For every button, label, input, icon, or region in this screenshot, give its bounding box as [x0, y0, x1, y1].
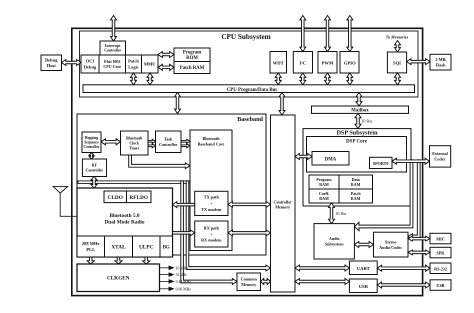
wire arrow top to GPIO [347, 16, 353, 52]
svg-text:Controller: Controller [159, 142, 178, 147]
svg-text:Audio Codec: Audio Codec [379, 245, 402, 250]
wire SPORT0 to External Codec [392, 158, 430, 164]
block External Codec [430, 146, 451, 167]
svg-text:IO Bus: IO Bus [336, 212, 347, 216]
svg-text:DMA: DMA [325, 157, 337, 162]
wire WDT to CPU bus [275, 73, 281, 85]
wire Controller Memory to USB [295, 279, 349, 285]
svg-text:ULPC: ULPC [139, 244, 154, 250]
wire Patch Logic to CPU bus [131, 73, 137, 85]
svg-text:Patch RAM: Patch RAM [180, 66, 205, 71]
wire vertical feeder to UART row [186, 181, 270, 271]
svg-text:CPU Program/Data Bus: CPU Program/Data Bus [227, 88, 278, 93]
block SPK [430, 247, 451, 257]
svg-text:Hopping: Hopping [85, 136, 99, 140]
block Program RAM [309, 175, 339, 189]
svg-text:RX modem: RX modem [201, 238, 222, 243]
wire RAM grid to Audio Subsystem IO Bus [329, 203, 335, 224]
svg-text:RX path: RX path [204, 225, 220, 230]
wire Debug Host to OCI Debug [62, 60, 82, 66]
svg-text:CLDO: CLDO [108, 195, 123, 201]
wire Mailbox to DSP Subsystem IO Bus [355, 113, 361, 128]
wire Radio to RX path [173, 230, 195, 236]
wire Clock Timer to Task Controller lower [148, 144, 156, 148]
svg-text:Controller: Controller [104, 49, 121, 53]
svg-text:0.96 MHz: 0.96 MHz [176, 287, 192, 291]
svg-text:RAM: RAM [351, 196, 361, 201]
svg-text:Controller: Controller [274, 199, 293, 204]
svg-text:Program: Program [183, 51, 201, 56]
svg-text:MIC: MIC [436, 237, 445, 242]
wire MMU to CPU bus [147, 73, 153, 85]
svg-text:CPU Core: CPU Core [103, 64, 121, 69]
svg-text:Bluetooth: Bluetooth [126, 136, 143, 140]
wire CPU bus to Controller Memory [279, 93, 285, 116]
wire Clock Timer L-arrow to Baseband Core [129, 155, 190, 169]
block ULPC [133, 236, 161, 257]
svg-text:UART: UART [357, 266, 370, 271]
svg-text:WDT: WDT [273, 61, 284, 66]
block PWM [318, 52, 337, 74]
wire CPU bus to Baseband [175, 93, 181, 114]
svg-text:Memory: Memory [241, 282, 256, 287]
wire TX path to Controller Memory [228, 201, 271, 207]
svg-text:USB: USB [436, 283, 444, 288]
svg-text:RF: RF [92, 164, 98, 168]
block Audio Subsystem [314, 224, 354, 259]
svg-text:MMU: MMU [144, 62, 156, 67]
bus CPU Program-Data Bus [83, 85, 415, 93]
wire arrow top to Interrupt Controller [111, 16, 117, 42]
clock output 16 MHz [160, 267, 170, 269]
svg-text:Flash: Flash [435, 62, 446, 67]
wire Hopping to Clock Timer [101, 139, 121, 145]
block Common Memory [237, 273, 261, 291]
wire SQI to memories [395, 41, 401, 53]
wire SQI to CPU bus [395, 73, 401, 85]
block USB internal [349, 279, 377, 293]
block WDT [270, 52, 287, 74]
clock output 32 kHz [160, 274, 170, 276]
svg-text:SPK: SPK [436, 251, 445, 256]
wire Controller Memory to UART [295, 265, 349, 271]
block MIC [430, 233, 451, 244]
svg-text:TX modem: TX modem [201, 207, 222, 212]
block TX path TX modem [195, 191, 228, 215]
svg-text:2 MB: 2 MB [435, 57, 445, 62]
svg-text:TX path: TX path [204, 195, 220, 200]
wire Task Controller to Baseband Core upper [181, 139, 190, 143]
clock output 0.96 MHz [160, 288, 170, 290]
block DSP Core [307, 137, 407, 173]
svg-text:Clock: Clock [129, 141, 140, 145]
svg-text:Debug: Debug [84, 64, 97, 69]
block DSP Subsystem [303, 129, 411, 206]
wire RF Controller to Radio [91, 177, 97, 189]
svg-text:Stereo: Stereo [385, 239, 396, 244]
block RS-232 [430, 263, 451, 274]
svg-text:CPU Subsystem: CPU Subsystem [221, 33, 270, 41]
svg-text:IO Bus: IO Bus [362, 119, 373, 123]
block Stereo Audio Codec [374, 232, 409, 257]
block CLDO [104, 191, 127, 203]
svg-text:288 MHz: 288 MHz [82, 241, 100, 246]
wire CPU bus to Mailbox [356, 93, 362, 107]
wire Stereo Codec to MIC [408, 236, 430, 241]
svg-text:SPORT0: SPORT0 [373, 161, 389, 166]
svg-text:I²C: I²C [300, 61, 306, 66]
block Patch RAM of DSP [339, 189, 373, 203]
svg-text:ROM: ROM [186, 56, 198, 61]
wire USB to USB connector [377, 282, 430, 288]
block RF Controller [82, 159, 106, 177]
svg-text:XTAL: XTAL [111, 244, 126, 250]
chip boundary [72, 28, 423, 295]
svg-text:BG: BG [163, 245, 170, 250]
wire Controller Memory to DMA [295, 154, 312, 160]
svg-text:Logic: Logic [128, 64, 139, 69]
wire Stereo Codec to SPK [408, 250, 430, 255]
block SQI [387, 52, 406, 73]
block Program ROM [174, 48, 210, 62]
wire Hopping to RF Controller [89, 153, 94, 160]
svg-text:Codec: Codec [434, 157, 445, 162]
block Coeff RAM [309, 189, 339, 203]
block SPORT0 [370, 157, 393, 168]
block BG [160, 236, 173, 257]
block Interrupt Controller [100, 41, 126, 55]
wire UART to RS-232 [377, 265, 430, 271]
block Mailbox [312, 106, 409, 113]
block Bluetooth Clock Timer [121, 131, 149, 155]
svg-text:External: External [432, 151, 448, 156]
block Task Controller [156, 131, 182, 153]
block Patch Logic [126, 55, 142, 73]
wire Common Memory to Controller Memory [261, 279, 271, 285]
svg-text:RAM: RAM [319, 182, 329, 187]
clock output 0.48 MHz [160, 280, 170, 282]
svg-text:Controller: Controller [86, 169, 104, 173]
svg-text:Baseband: Baseband [237, 116, 263, 123]
wire PWM to CPU bus [325, 73, 331, 85]
block RX path RX modem [195, 221, 228, 247]
svg-text:USB: USB [359, 284, 368, 289]
svg-text:Patch: Patch [128, 59, 139, 64]
svg-text:Mailbox: Mailbox [351, 109, 369, 114]
wire SQI to 2 MB Flash [407, 59, 430, 65]
block Bluetooth 5.0 Dual Mode Radio [77, 188, 173, 257]
svg-text:RFLDO: RFLDO [129, 195, 148, 201]
wire ULPC to CLKGEN [143, 257, 150, 264]
svg-text:Subsystem: Subsystem [325, 241, 344, 246]
antenna [53, 186, 68, 193]
svg-text:PWM: PWM [322, 61, 334, 66]
wire horizontal feeder above radio [78, 181, 189, 184]
wire vertical feeder to USB row [181, 181, 237, 285]
svg-text:GPIO: GPIO [344, 61, 356, 66]
block GPIO [340, 52, 359, 74]
block USB external [430, 280, 451, 291]
svg-text:Sequence: Sequence [84, 140, 99, 144]
svg-text:0.48 MHz: 0.48 MHz [176, 280, 192, 284]
block OCI Debug [81, 55, 99, 73]
wire XTAL to CLKGEN [115, 257, 122, 264]
wire branch to Stereo Audio Codec [408, 160, 420, 240]
svg-text:Bluetooth: Bluetooth [202, 136, 220, 141]
svg-text:RS-232: RS-232 [434, 266, 447, 271]
block 2 MB Flash [430, 54, 451, 70]
svg-text:Debug: Debug [45, 57, 58, 62]
svg-text:RAM: RAM [351, 182, 361, 187]
svg-text:Task: Task [164, 137, 173, 142]
svg-text:Controller: Controller [83, 145, 100, 149]
block I2C [293, 52, 312, 74]
svg-text:DSP Subsystem: DSP Subsystem [336, 130, 378, 137]
wire MMU to Patch RAM [158, 64, 174, 70]
svg-text:Dual Mode Radio: Dual Mode Radio [104, 220, 144, 226]
block Bluetooth Baseband Core [190, 130, 232, 251]
svg-text:Audio: Audio [329, 236, 340, 241]
wire MMU to Program ROM [158, 52, 174, 58]
block UART [349, 261, 377, 275]
svg-text:Host: Host [47, 63, 57, 68]
block CPU Subsystem [80, 31, 419, 97]
svg-text:To Memories: To Memories [386, 34, 409, 39]
wire TX path to Radio [173, 202, 195, 208]
wire I2C to CPU bus [300, 73, 306, 85]
wire RX path to Controller Memory [228, 230, 271, 236]
wire arrow top to I2C [300, 16, 306, 52]
wire PLL to CLKGEN [87, 257, 94, 264]
block Patch RAM of CPU [174, 62, 210, 74]
block XTAL [105, 236, 133, 257]
svg-text:16 MHz: 16 MHz [176, 266, 189, 270]
block 288 MHz PLL [77, 236, 105, 257]
svg-text:Interrupt: Interrupt [105, 44, 121, 48]
block Hopping Sequence Controller [82, 132, 101, 153]
block Debug Host [41, 55, 62, 71]
svg-text:SQI: SQI [393, 60, 401, 65]
block CLKGEN [77, 264, 160, 292]
wire SPORT0 branch to Audio Subsystem [354, 160, 413, 231]
wire arrow top to PWM [325, 16, 331, 52]
svg-text:DSP Core: DSP Core [346, 140, 368, 145]
wire Task Controller to Baseband Core lower [181, 144, 190, 148]
wire GPIO to CPU bus [347, 73, 353, 85]
wire Audio Subsystem to Stereo Audio Codec [354, 242, 373, 248]
block Controller Memory [271, 115, 296, 292]
svg-text:OCI: OCI [86, 59, 95, 64]
block 8-bit 8051 CPU Core [99, 55, 126, 73]
svg-text:Baseband Core: Baseband Core [198, 142, 225, 147]
svg-text:RAM: RAM [319, 196, 329, 201]
svg-text:Timer: Timer [129, 146, 140, 150]
svg-text:Memory: Memory [275, 205, 290, 210]
block Baseband [77, 114, 266, 255]
svg-text:PLL: PLL [86, 247, 95, 252]
block RFLDO [127, 191, 152, 203]
svg-text:Bluetooth 5.0: Bluetooth 5.0 [109, 213, 139, 219]
svg-text:CLKGEN: CLKGEN [107, 276, 130, 282]
block MMU [142, 55, 159, 73]
svg-text:Common: Common [241, 276, 258, 281]
block DMA [312, 152, 349, 166]
svg-text:32 kHz: 32 kHz [176, 273, 187, 277]
block Data RAM [339, 175, 373, 189]
wire Clock Timer to Task Controller upper [148, 139, 156, 143]
